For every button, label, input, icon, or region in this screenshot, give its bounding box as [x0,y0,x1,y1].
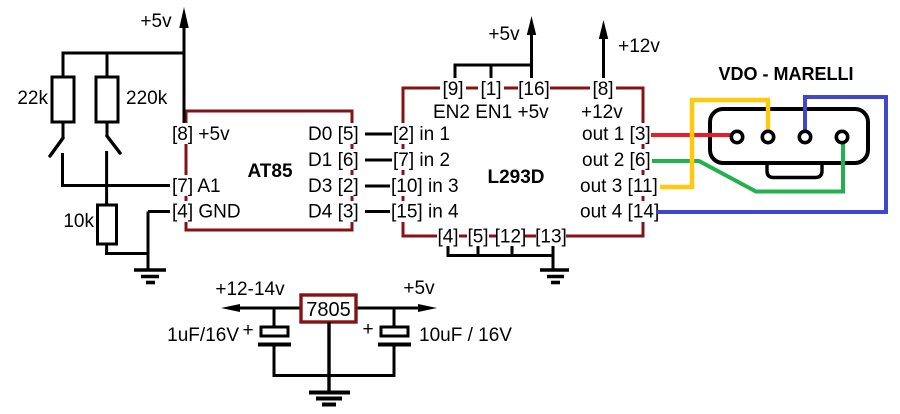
power +12v arrow (L293D pin 8) [599,20,608,80]
switch S1 (under 22k) [50,138,63,156]
svg-text:[12]: [12] [495,227,527,248]
wire out2 green [652,140,843,192]
ground (L293D) [540,270,569,283]
svg-text:EN2 EN1 +5v: EN2 EN1 +5v [433,102,549,123]
wire D3 pin2 to in3 pin10 [356,185,402,188]
svg-text:+12v: +12v [581,102,623,123]
wire AT85 pin 4 GND stub [148,210,174,213]
svg-text:[8] +5v: [8] +5v [172,124,230,145]
power +5v arrow (L293D) [527,16,536,66]
resistor R2 220k [96,53,118,137]
svg-text:+: + [362,319,373,340]
wire 7805 gnd pin [327,322,330,392]
ground (left, AT85) [134,270,166,283]
arrow output (right) [418,304,437,312]
svg-text:out 1 [3]: out 1 [3] [582,124,651,145]
L293D pin [15] in 4 [390,201,459,223]
svg-text:22k: 22k [17,88,48,109]
L293D pin [1] [478,78,504,100]
svg-text:+5v: +5v [140,11,172,32]
resistor R1 22k [52,53,74,138]
svg-text:L293D: L293D [487,167,544,188]
svg-text:[7] A1: [7] A1 [172,176,221,197]
wire +5v branch to resistors [62,52,185,55]
svg-text:[15] in 4: [15] in 4 [391,202,459,223]
connector pin 4 [836,131,847,142]
wire 10k bottom to ground node [105,252,149,255]
L293D pin [7] in 2 [392,149,450,171]
L293D pin [10] in 3 [390,175,459,197]
AT85 pin [7] A1 [170,175,221,197]
svg-text:[9]: [9] [442,79,463,100]
svg-text:[7] in 2: [7] in 2 [393,150,450,171]
L293D pin out 3 [11] [580,175,658,197]
wire out3 yellow [660,100,768,187]
svg-text:D0 [5]: D0 [5] [308,124,359,145]
svg-text:1uF/16V: 1uF/16V [167,325,239,346]
IC U1 AT85 box [186,111,352,230]
arrow input (left) [221,304,240,312]
svg-text:+12v: +12v [618,36,660,57]
capacitor C1 1uF/16V [258,308,291,377]
capacitor C2 10uF/16V [378,308,411,377]
connector J1 tab [767,163,822,178]
L293D pin [5] bottom [467,226,489,248]
L293D pin [16] [518,78,550,100]
svg-text:[8]: [8] [592,79,613,100]
svg-text:AT85: AT85 [247,161,292,182]
wire switch S2 down to 10k [105,151,108,206]
ground (7805) [309,393,350,405]
svg-text:10uF / 16V: 10uF / 16V [419,325,512,346]
power +5v arrow (left, AT85 pin 8) [179,7,188,127]
wire D4 pin3 to in4 pin15 [356,210,402,213]
svg-text:VDO - MARELLI: VDO - MARELLI [719,64,854,84]
wire switch S1 to bus [61,153,64,187]
svg-text:[4]: [4] [437,227,458,248]
svg-text:D1 [6]: D1 [6] [308,150,359,171]
L293D pin [9] [440,78,466,100]
svg-text:D3 [2]: D3 [2] [308,176,359,197]
wire out4 blue [657,97,886,212]
regulator U3 7805 [301,295,356,322]
svg-text:[13]: [13] [535,227,567,248]
svg-text:10k: 10k [63,211,94,232]
resistor R3 10k [98,205,117,255]
AT85 pin [4] GND [170,201,241,223]
wire out1 red [651,133,737,137]
IC U2 L293D box [403,88,643,236]
svg-text:[16]: [16] [518,79,550,100]
wire D1 pin6 to in2 pin7 [356,159,402,162]
L293D pin [2] in 1 [392,123,450,145]
svg-text:[2] in 1: [2] in 1 [393,124,450,145]
wire bus to AT85 pin 7 (A1) [61,184,173,187]
svg-text:220k: 220k [126,88,168,109]
connector pin 2 [762,131,773,142]
AT85 pin [8] +5v [170,123,230,145]
connector J1 body [710,109,868,163]
svg-text:D4 [3]: D4 [3] [308,202,359,223]
wire D0 pin5 to in1 pin2 [356,133,402,136]
L293D pin [8] [590,78,616,100]
svg-text:[1]: [1] [480,79,501,100]
svg-text:7805: 7805 [306,299,351,321]
AT85 pin D0 [5] [308,123,365,145]
svg-text:[4] GND: [4] GND [172,202,241,223]
svg-text:+5v: +5v [403,278,435,299]
wire regulator main rail [230,307,430,310]
svg-text:+: + [242,320,253,341]
svg-text:[10] in 3: [10] in 3 [391,176,459,197]
L293D pin out 4 [14] [580,201,659,223]
connector pin 1 [731,131,742,142]
L293D pin [13] bottom [535,226,567,248]
wire ground bracket (L293D pins 4,5,12,13) [447,246,555,270]
svg-text:+12-14v: +12-14v [215,279,285,300]
L293D pin [12] bottom [495,226,527,248]
svg-text:+5v: +5v [488,24,520,45]
wire GND vertical [147,212,150,271]
wire regulator ground rail [273,374,396,377]
connector pin 3 [799,131,810,142]
svg-text:[5]: [5] [467,227,488,248]
AT85 pin D3 [2] [308,175,365,197]
wire +5v bracket (L293D pins 9,1,16) [454,65,534,80]
L293D pin [4] bottom [437,226,459,248]
L293D pin out 2 [6] [582,149,651,171]
switch S2 (under 220k) [107,136,120,153]
svg-text:out 2 [6]: out 2 [6] [582,150,651,171]
svg-text:out 3 [11]: out 3 [11] [580,176,658,197]
L293D pin out 1 [3] [582,123,651,145]
AT85 pin D4 [3] [308,201,365,223]
AT85 pin D1 [6] [308,149,365,171]
svg-text:out 4 [14]: out 4 [14] [580,202,659,223]
